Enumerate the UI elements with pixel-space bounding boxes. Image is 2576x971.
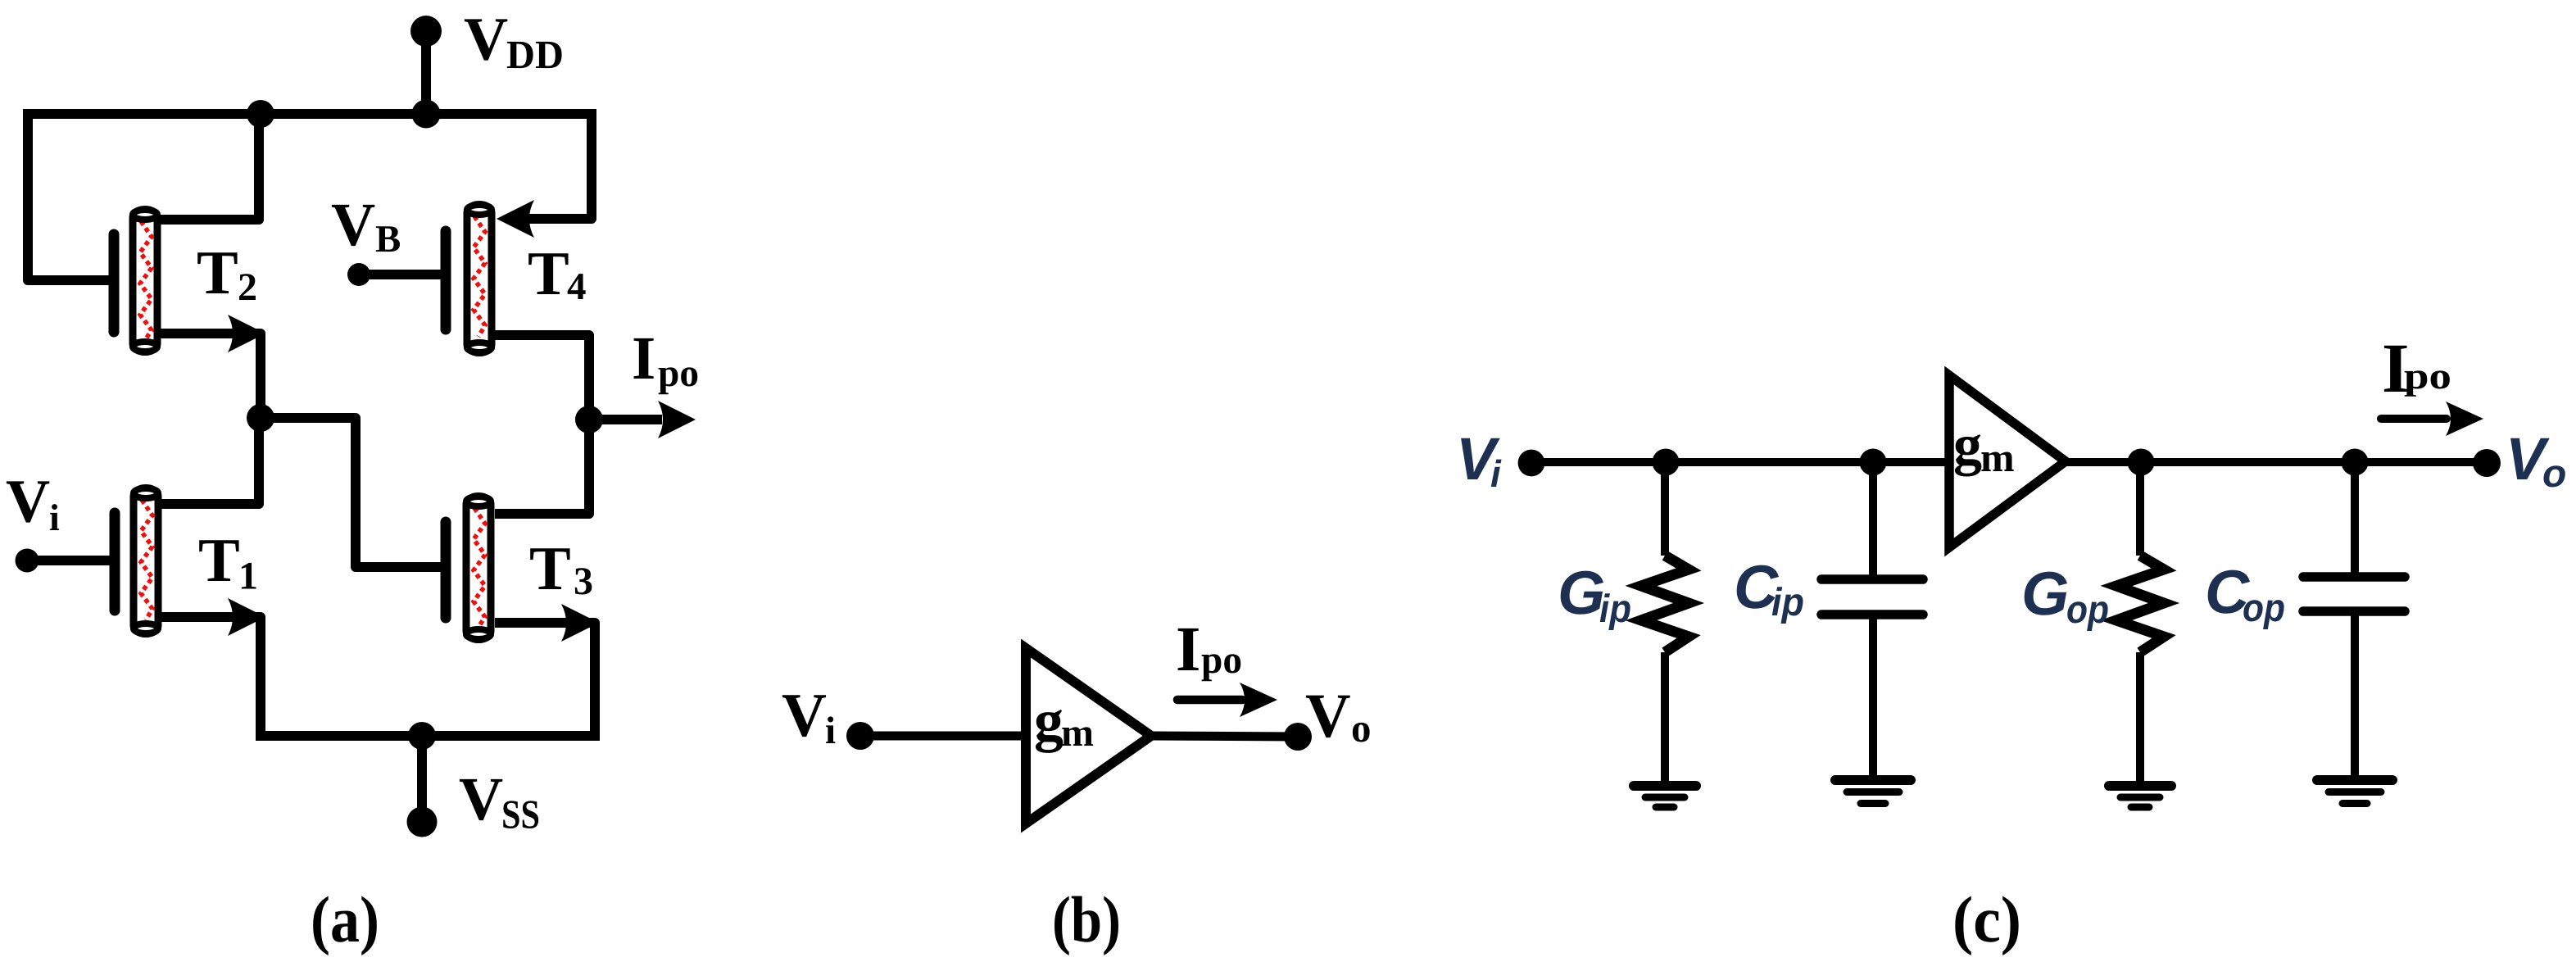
node: Vo terminal (b) [1284, 723, 1312, 751]
wire: VDD stub [421, 31, 431, 114]
T2 tube bottom ring [133, 342, 157, 352]
svg-text:I: I [1176, 613, 1200, 684]
svg-text:SS: SS [501, 792, 540, 837]
wire: VB lead to T4 gate [359, 270, 450, 279]
T2 source arrow [228, 315, 265, 352]
wire: amplifier output to Vo (c) [2064, 458, 2487, 466]
T2 gate bar [109, 234, 120, 332]
wire: bottom VSS rail [256, 731, 600, 741]
wire: T1 source down to bottom rail [159, 617, 261, 736]
node: output node Ipo [575, 406, 603, 433]
svg-text:g: g [1034, 687, 1064, 753]
svg-text:T: T [529, 534, 571, 603]
wire: T3 drain up to output node [495, 424, 589, 514]
resistor Gip zigzag [1641, 556, 1689, 652]
arrow: Ipo current direction (c) [2381, 415, 2447, 423]
ground for Gip branch [1634, 786, 1696, 807]
wire: amplifier output to Vo (b) [1151, 736, 1298, 737]
svg-text:i: i [1490, 452, 1502, 495]
svg-text:i: i [825, 710, 836, 752]
resistor Gop zigzag [2116, 556, 2164, 652]
node: rail junction above T2 [247, 100, 274, 128]
node: junction above Gip [1653, 449, 1680, 476]
svg-text:po: po [2404, 355, 2451, 397]
svg-text:m: m [1061, 711, 1094, 755]
node: rail junction at VDD stub [412, 100, 441, 129]
T3 tube bottom ring [466, 629, 491, 639]
svg-text:2: 2 [238, 265, 257, 309]
T2 tube top ring [133, 210, 157, 220]
transistor T1 (CNTFET) [115, 488, 265, 637]
svg-text:T: T [198, 526, 240, 595]
svg-text:T: T [528, 239, 569, 308]
svg-text:B: B [375, 218, 401, 261]
T4 drain arrow pointing into tube [497, 200, 534, 238]
T4 nanotube channel [467, 205, 492, 353]
svg-text:V: V [782, 681, 827, 750]
transistor T4 (CNTFET) [446, 200, 534, 353]
ground for Cip branch [1835, 780, 1911, 804]
capacitor Cip top plate [1821, 574, 1923, 584]
node: VSS terminal [407, 807, 438, 837]
arrow: Ipo current direction (b) [1177, 696, 1242, 705]
T1 tube bottom ring [134, 624, 158, 633]
transistor T3 (CNTFET) [446, 497, 599, 642]
transistor T2 (CNTFET) [114, 210, 265, 353]
ground for Cop branch [2317, 780, 2392, 804]
wire: Vi to amplifier input (b) [860, 732, 1027, 741]
capacitor Cip bottom plate [1821, 610, 1923, 619]
svg-text:4: 4 [567, 265, 587, 308]
T1 gate bar [110, 513, 120, 610]
svg-text:(a): (a) [311, 884, 379, 956]
svg-text:g: g [1953, 414, 1982, 477]
T3 nanotube channel [466, 497, 491, 640]
wire: Vi to amplifier input (c) [1531, 458, 1949, 466]
svg-text:3: 3 [574, 560, 593, 603]
T3 tube top ring [466, 497, 491, 506]
node: Vi terminal (b) [846, 722, 874, 750]
capacitor Cop bottom plate [2303, 606, 2405, 616]
T1 red nanotube zigzag [141, 500, 152, 620]
T2 red nanotube zigzag [140, 221, 152, 340]
T2 nanotube channel [133, 210, 157, 352]
wire: Gip branch upper [1661, 462, 1669, 556]
T4 tube bottom ring [467, 343, 492, 352]
wire: rail right drop to T4 drain [524, 114, 592, 219]
T1 nanotube channel [134, 488, 158, 634]
node: VB terminal [347, 263, 370, 286]
svg-text:op: op [2243, 587, 2285, 630]
wire: VSS stub [417, 736, 427, 822]
svg-text:op: op [2066, 588, 2109, 632]
svg-text:G: G [2021, 559, 2069, 628]
svg-text:V: V [1305, 680, 1351, 751]
svg-text:ip: ip [1599, 588, 1631, 631]
wire: T2 source to middle node [159, 333, 261, 418]
T1 source arrow [228, 598, 265, 636]
svg-text:V: V [464, 6, 508, 74]
svg-text:ip: ip [1771, 581, 1804, 624]
wire: Cop branch lower [2351, 611, 2359, 778]
capacitor Cop top plate [2303, 572, 2405, 582]
svg-text:DD: DD [506, 32, 564, 77]
wire: T2 drain up to rail [159, 114, 259, 220]
svg-text:(b): (b) [1052, 884, 1121, 956]
svg-text:i: i [49, 497, 60, 538]
svg-text:V: V [6, 468, 50, 536]
svg-text:o: o [2542, 452, 2566, 496]
wire: Cop branch upper [2351, 462, 2359, 575]
node: Vi terminal (c) [1518, 450, 1545, 477]
wire: top VDD rail [23, 109, 596, 119]
node: VSS rail junction [408, 722, 436, 750]
wire: Gop branch lower [2136, 652, 2144, 783]
wire: T1 drain up to middle node [159, 418, 259, 504]
node: junction above Gop [2128, 449, 2155, 476]
wire: T3 source down to bottom rail [495, 623, 595, 731]
wire: Gop branch upper [2136, 462, 2144, 556]
svg-text:m: m [1980, 434, 2015, 480]
svg-text:po: po [658, 352, 699, 395]
T3 source arrow [561, 604, 599, 642]
wire: output node to Ipo arrow [589, 415, 662, 424]
node: Vi input terminal [16, 549, 39, 573]
wire: left feedback from rail to T2 gate [28, 109, 118, 280]
svg-text:po: po [1201, 638, 1242, 682]
wire: Cip branch upper [1869, 462, 1877, 578]
arrow: Ipo output current (panel a) [658, 401, 696, 438]
svg-text:G: G [1558, 558, 1605, 627]
node: junction above Cip [1860, 449, 1887, 476]
T4 gate bar [441, 231, 451, 329]
node: junction above Cop [2342, 449, 2369, 476]
svg-text:T: T [197, 238, 238, 307]
op-amp gm amplifier (b) [1026, 648, 1151, 824]
wire: Cip branch lower [1869, 615, 1877, 778]
svg-text:(c): (c) [1952, 884, 2021, 956]
wire: T4 source down to output node [495, 335, 589, 420]
ground for Gop branch [2109, 786, 2171, 807]
svg-text:1: 1 [238, 555, 258, 598]
node: Vo terminal (c) [2473, 449, 2501, 477]
svg-text:V: V [459, 765, 503, 833]
wire: Gip branch lower [1661, 652, 1669, 783]
svg-text:I: I [632, 324, 655, 392]
T4 red nanotube zigzag [474, 216, 485, 337]
wire: Vi lead to T1 gate [27, 556, 119, 565]
T3 gate bar [441, 522, 451, 618]
T3 red nanotube zigzag [474, 508, 485, 627]
wire: middle node to T3 gate [261, 418, 444, 567]
node: VDD terminal [410, 16, 442, 47]
T1 tube top ring [134, 488, 158, 498]
svg-text:V: V [331, 191, 375, 259]
T4 tube top ring [467, 205, 492, 215]
node: middle node T1 drain / T2 source [247, 404, 274, 432]
svg-text:o: o [1351, 706, 1372, 751]
op-amp gm amplifier (c) [1949, 375, 2066, 547]
